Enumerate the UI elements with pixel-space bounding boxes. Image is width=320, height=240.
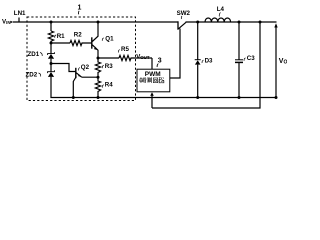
node D bbox=[97, 76, 100, 79]
svg-text:VIN: VIN bbox=[2, 19, 11, 26]
wire ZD1 top bbox=[50, 43, 52, 54]
node A bbox=[50, 42, 53, 45]
svg-text:VOUT: VOUT bbox=[136, 53, 150, 60]
svg-text:VO: VO bbox=[279, 58, 287, 66]
switch SW2 bbox=[177, 21, 179, 29]
resistor R4 bbox=[95, 77, 100, 97]
svg-text:R3: R3 bbox=[105, 63, 113, 70]
wire top rail bbox=[13, 21, 178, 23]
transistor Q1 bbox=[91, 37, 93, 48]
svg-text:PWM: PWM bbox=[145, 71, 161, 78]
Q2 collector junction on bottom rail bbox=[72, 96, 75, 99]
wire top rail right of SW2 bbox=[186, 21, 277, 23]
junction Q1 collector on top rail bbox=[97, 21, 100, 24]
output Vo arrow bbox=[275, 27, 277, 98]
wire node A to R2 bbox=[51, 42, 70, 44]
dashed box 1 bbox=[27, 17, 136, 101]
junction C3 top bbox=[238, 21, 241, 24]
svg-text:1: 1 bbox=[78, 5, 82, 12]
resistor R1 bbox=[48, 31, 53, 43]
PWM control block U1 bbox=[137, 69, 170, 92]
wire bbox=[50, 22, 52, 31]
svg-text:R5: R5 bbox=[121, 46, 129, 53]
transistor Q2 bbox=[75, 68, 77, 78]
junction D3 top bbox=[196, 21, 199, 24]
wire ZD2 to bottom rail bbox=[51, 77, 276, 98]
resistor R2 bbox=[70, 40, 92, 45]
svg-text:R4: R4 bbox=[105, 82, 113, 89]
回 bbox=[153, 78, 157, 83]
junction top of R1 bbox=[50, 21, 53, 24]
feedback arrow into PWM bottom bbox=[151, 96, 153, 109]
PWM output wire to SW2 bbox=[170, 29, 181, 79]
Vout label bbox=[136, 53, 150, 60]
svg-text:R1: R1 bbox=[57, 33, 65, 40]
inductor L4 bbox=[205, 18, 231, 22]
kanji 制御回路 drawn as paths bbox=[139, 77, 164, 83]
node LN1 tick bbox=[18, 18, 20, 23]
svg-text:LN1: LN1 bbox=[14, 10, 26, 17]
路 bbox=[159, 77, 165, 82]
svg-text:Q1: Q1 bbox=[105, 36, 114, 43]
Vin terminal bbox=[2, 19, 11, 26]
label 3 bbox=[158, 58, 162, 65]
svg-text:Q2: Q2 bbox=[81, 64, 90, 71]
resistor R3 bbox=[95, 58, 100, 77]
svg-text:3: 3 bbox=[158, 58, 162, 65]
svg-text:D3: D3 bbox=[205, 57, 213, 64]
node B bbox=[50, 62, 53, 65]
制 bbox=[139, 77, 144, 83]
node Vout junction bbox=[97, 57, 100, 60]
capacitor C3 bbox=[238, 22, 240, 60]
svg-text:SW2: SW2 bbox=[177, 10, 191, 17]
wire Vout corner down to PWM bbox=[151, 58, 153, 69]
junction R4 bottom on bottom rail bbox=[97, 96, 100, 99]
feedback sense wire bbox=[152, 22, 260, 108]
svg-text:L4: L4 bbox=[217, 6, 225, 13]
resistor R5 bbox=[119, 55, 152, 60]
svg-text:ZD1: ZD1 bbox=[28, 51, 40, 58]
svg-text:ZD2: ZD2 bbox=[26, 72, 38, 79]
label 1 bbox=[78, 5, 82, 12]
wire to R5 bbox=[98, 57, 119, 59]
Vin arrow bbox=[11, 21, 14, 23]
御 bbox=[145, 77, 152, 83]
junction feedback top bbox=[259, 21, 262, 24]
svg-text:R2: R2 bbox=[74, 31, 82, 38]
svg-text:C3: C3 bbox=[247, 55, 255, 62]
zener ZD2 bbox=[50, 64, 52, 72]
zener ZD1 bbox=[48, 52, 55, 55]
wire node B to Q2 base bbox=[51, 64, 75, 72]
diode D3 bbox=[197, 22, 199, 60]
node LN1 label bbox=[14, 10, 26, 17]
wire Q2 emitter to node D bbox=[82, 76, 98, 78]
